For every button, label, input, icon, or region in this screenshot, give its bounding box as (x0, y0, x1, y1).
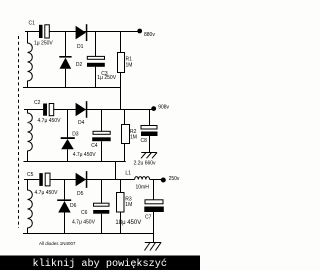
node 250v terminal dot (161, 178, 166, 183)
svg-text:4.7μ 450V: 4.7μ 450V (72, 220, 96, 226)
capacitor C4 plates (93, 131, 110, 134)
svg-text:C5: C5 (27, 172, 34, 178)
diode D1 (76, 26, 86, 40)
wire: C8 bottom lead to ground (149, 136, 151, 152)
svg-text:1μ 250V: 1μ 250V (34, 41, 53, 47)
wire: R3 top lead (120, 180, 122, 193)
diode D4 (76, 103, 86, 117)
wire: C6 top lead (101, 180, 103, 204)
wire: section3 top left (24, 179, 39, 181)
diode D2 (59, 56, 71, 58)
wire: C7 bottom lead (153, 212, 155, 234)
winding W2 (section 2 secondary) (28, 110, 33, 162)
svg-text:C7: C7 (145, 214, 152, 220)
resistor R1 (118, 53, 125, 73)
wire: C3 bottom lead (95, 67, 97, 88)
capacitor C1 plates (39, 25, 43, 38)
wire: R1 top lead (120, 32, 122, 53)
svg-text:L1: L1 (125, 171, 131, 177)
capacitor C3 plates (87, 56, 104, 59)
wire: C8 top lead (149, 110, 151, 126)
wire: section2 top right of C2 to 908v dot (54, 109, 152, 111)
transformer core dashed line (18, 36, 20, 228)
inductor L1 (135, 177, 150, 180)
wire: C4 top lead (101, 110, 103, 132)
svg-text:C6: C6 (81, 210, 88, 216)
diode D5 (76, 173, 86, 187)
wire: section1 top left (25, 31, 39, 33)
wire: ground G2 lead (153, 234, 155, 243)
node 908v terminal dot (151, 106, 156, 111)
svg-text:1μ 250V: 1μ 250V (97, 75, 116, 81)
resistor R3 (117, 193, 125, 213)
capacitor C8 plates (141, 126, 157, 130)
capacitor C2 plates (43, 104, 47, 116)
wire: R3 bottom lead (120, 212, 122, 234)
svg-text:250v: 250v (169, 176, 180, 182)
wire: D3 bottom lead (67, 149, 69, 161)
wire: link section2 rail to section3 wire (115, 162, 117, 180)
svg-text:18μ 450V: 18μ 450V (115, 220, 141, 226)
wire: C3 top lead (95, 32, 97, 57)
wire: D3 top lead (67, 110, 69, 138)
svg-text:C1: C1 (29, 21, 36, 27)
wire: section3 top middle of C5 to L1 (50, 179, 135, 181)
capacitor C5 plates (39, 173, 43, 186)
svg-text:880v: 880v (144, 32, 155, 38)
wire: R2 bottom lead (124, 144, 126, 162)
svg-text:C4: C4 (91, 143, 98, 149)
wire: D6 bottom lead (64, 213, 66, 234)
svg-text:D5: D5 (77, 191, 84, 197)
wire: R1 bottom lead + link section1 rail to section2 wire (120, 73, 122, 110)
wire: section2 top left (24, 109, 43, 111)
winding W3 (section 3 secondary) (28, 180, 33, 234)
svg-text:D4: D4 (78, 120, 85, 126)
wire: L1 to 250v dot (150, 179, 162, 181)
wire: D6 top lead (64, 180, 66, 200)
svg-text:1M: 1M (125, 202, 132, 208)
svg-text:908v: 908v (158, 104, 169, 110)
diode D6 (57, 199, 71, 201)
wire: D2 top lead (65, 32, 67, 57)
svg-text:4.7μ 450V: 4.7μ 450V (73, 152, 97, 158)
svg-text:C2: C2 (34, 100, 41, 106)
node 880v terminal dot (137, 29, 142, 34)
svg-text:4.7μ 450V: 4.7μ 450V (38, 118, 62, 124)
wire: section1 top right of C1 to 880v dot (49, 31, 139, 33)
wire: C6 bottom lead (101, 214, 103, 234)
svg-text:1M: 1M (130, 135, 137, 141)
svg-text:D1: D1 (77, 44, 84, 50)
capacitor C7 plates (145, 200, 163, 204)
wire: section1 bottom rail (23, 87, 121, 89)
svg-text:4.7μ 450V: 4.7μ 450V (35, 190, 59, 196)
svg-text:C8: C8 (141, 138, 148, 144)
svg-text:1M: 1M (126, 62, 133, 68)
svg-text:10mH: 10mH (136, 185, 150, 191)
capacitor C6 plates (94, 203, 110, 206)
winding W1 (section 1 secondary) (28, 32, 33, 88)
wire: section2 bottom rail (24, 161, 126, 163)
svg-text:D6: D6 (70, 203, 77, 209)
svg-text:D3: D3 (72, 131, 79, 137)
wire: section3 bottom rail (23, 233, 154, 235)
svg-text:D2: D2 (76, 62, 83, 68)
wire: C7 top lead (153, 180, 155, 200)
ground G1 (under C8) (141, 153, 157, 159)
wire: C4 bottom lead (101, 141, 103, 161)
bottom bar (0, 256, 200, 270)
wire: D2 bottom lead (65, 69, 67, 88)
svg-text:kliknij aby powiększyć: kliknij aby powiększyć (33, 258, 168, 270)
resistor R2 (122, 125, 130, 144)
diode D3 (61, 137, 75, 139)
svg-text:All diodes 1N4007: All diodes 1N4007 (39, 241, 76, 246)
ground G2 (bottom right) (145, 243, 162, 251)
wire: R2 top lead (124, 110, 126, 125)
svg-text:2.2u 660v: 2.2u 660v (134, 161, 156, 167)
